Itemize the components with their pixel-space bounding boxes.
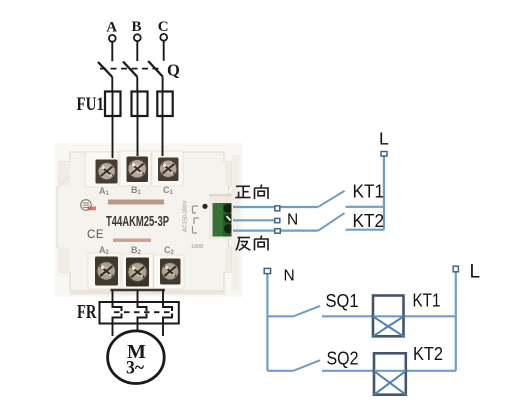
svg-text:N: N	[284, 267, 295, 284]
svg-text:L: L	[470, 261, 481, 282]
svg-text:KT2: KT2	[353, 211, 385, 231]
svg-text:N: N	[287, 212, 298, 229]
svg-text:KT1: KT1	[353, 181, 385, 201]
svg-text:A: A	[106, 20, 117, 36]
svg-text:CE: CE	[87, 229, 104, 241]
svg-text:L: L	[379, 129, 389, 149]
svg-text:T44AKM25-3P: T44AKM25-3P	[106, 213, 169, 230]
svg-text:FR: FR	[77, 301, 97, 323]
svg-text:SQ2: SQ2	[327, 348, 359, 368]
svg-text:AC150-380V: AC150-380V	[183, 200, 189, 232]
svg-text:SQ1: SQ1	[326, 291, 359, 311]
svg-text:1808: 1808	[191, 244, 203, 250]
svg-text:C: C	[158, 19, 169, 35]
svg-text:3~: 3~	[126, 358, 144, 379]
svg-text:FU1: FU1	[77, 94, 105, 115]
svg-text:Q: Q	[167, 61, 180, 80]
svg-text:KT2: KT2	[413, 344, 443, 364]
svg-text:KT1: KT1	[413, 291, 441, 311]
svg-text:B: B	[132, 19, 142, 35]
